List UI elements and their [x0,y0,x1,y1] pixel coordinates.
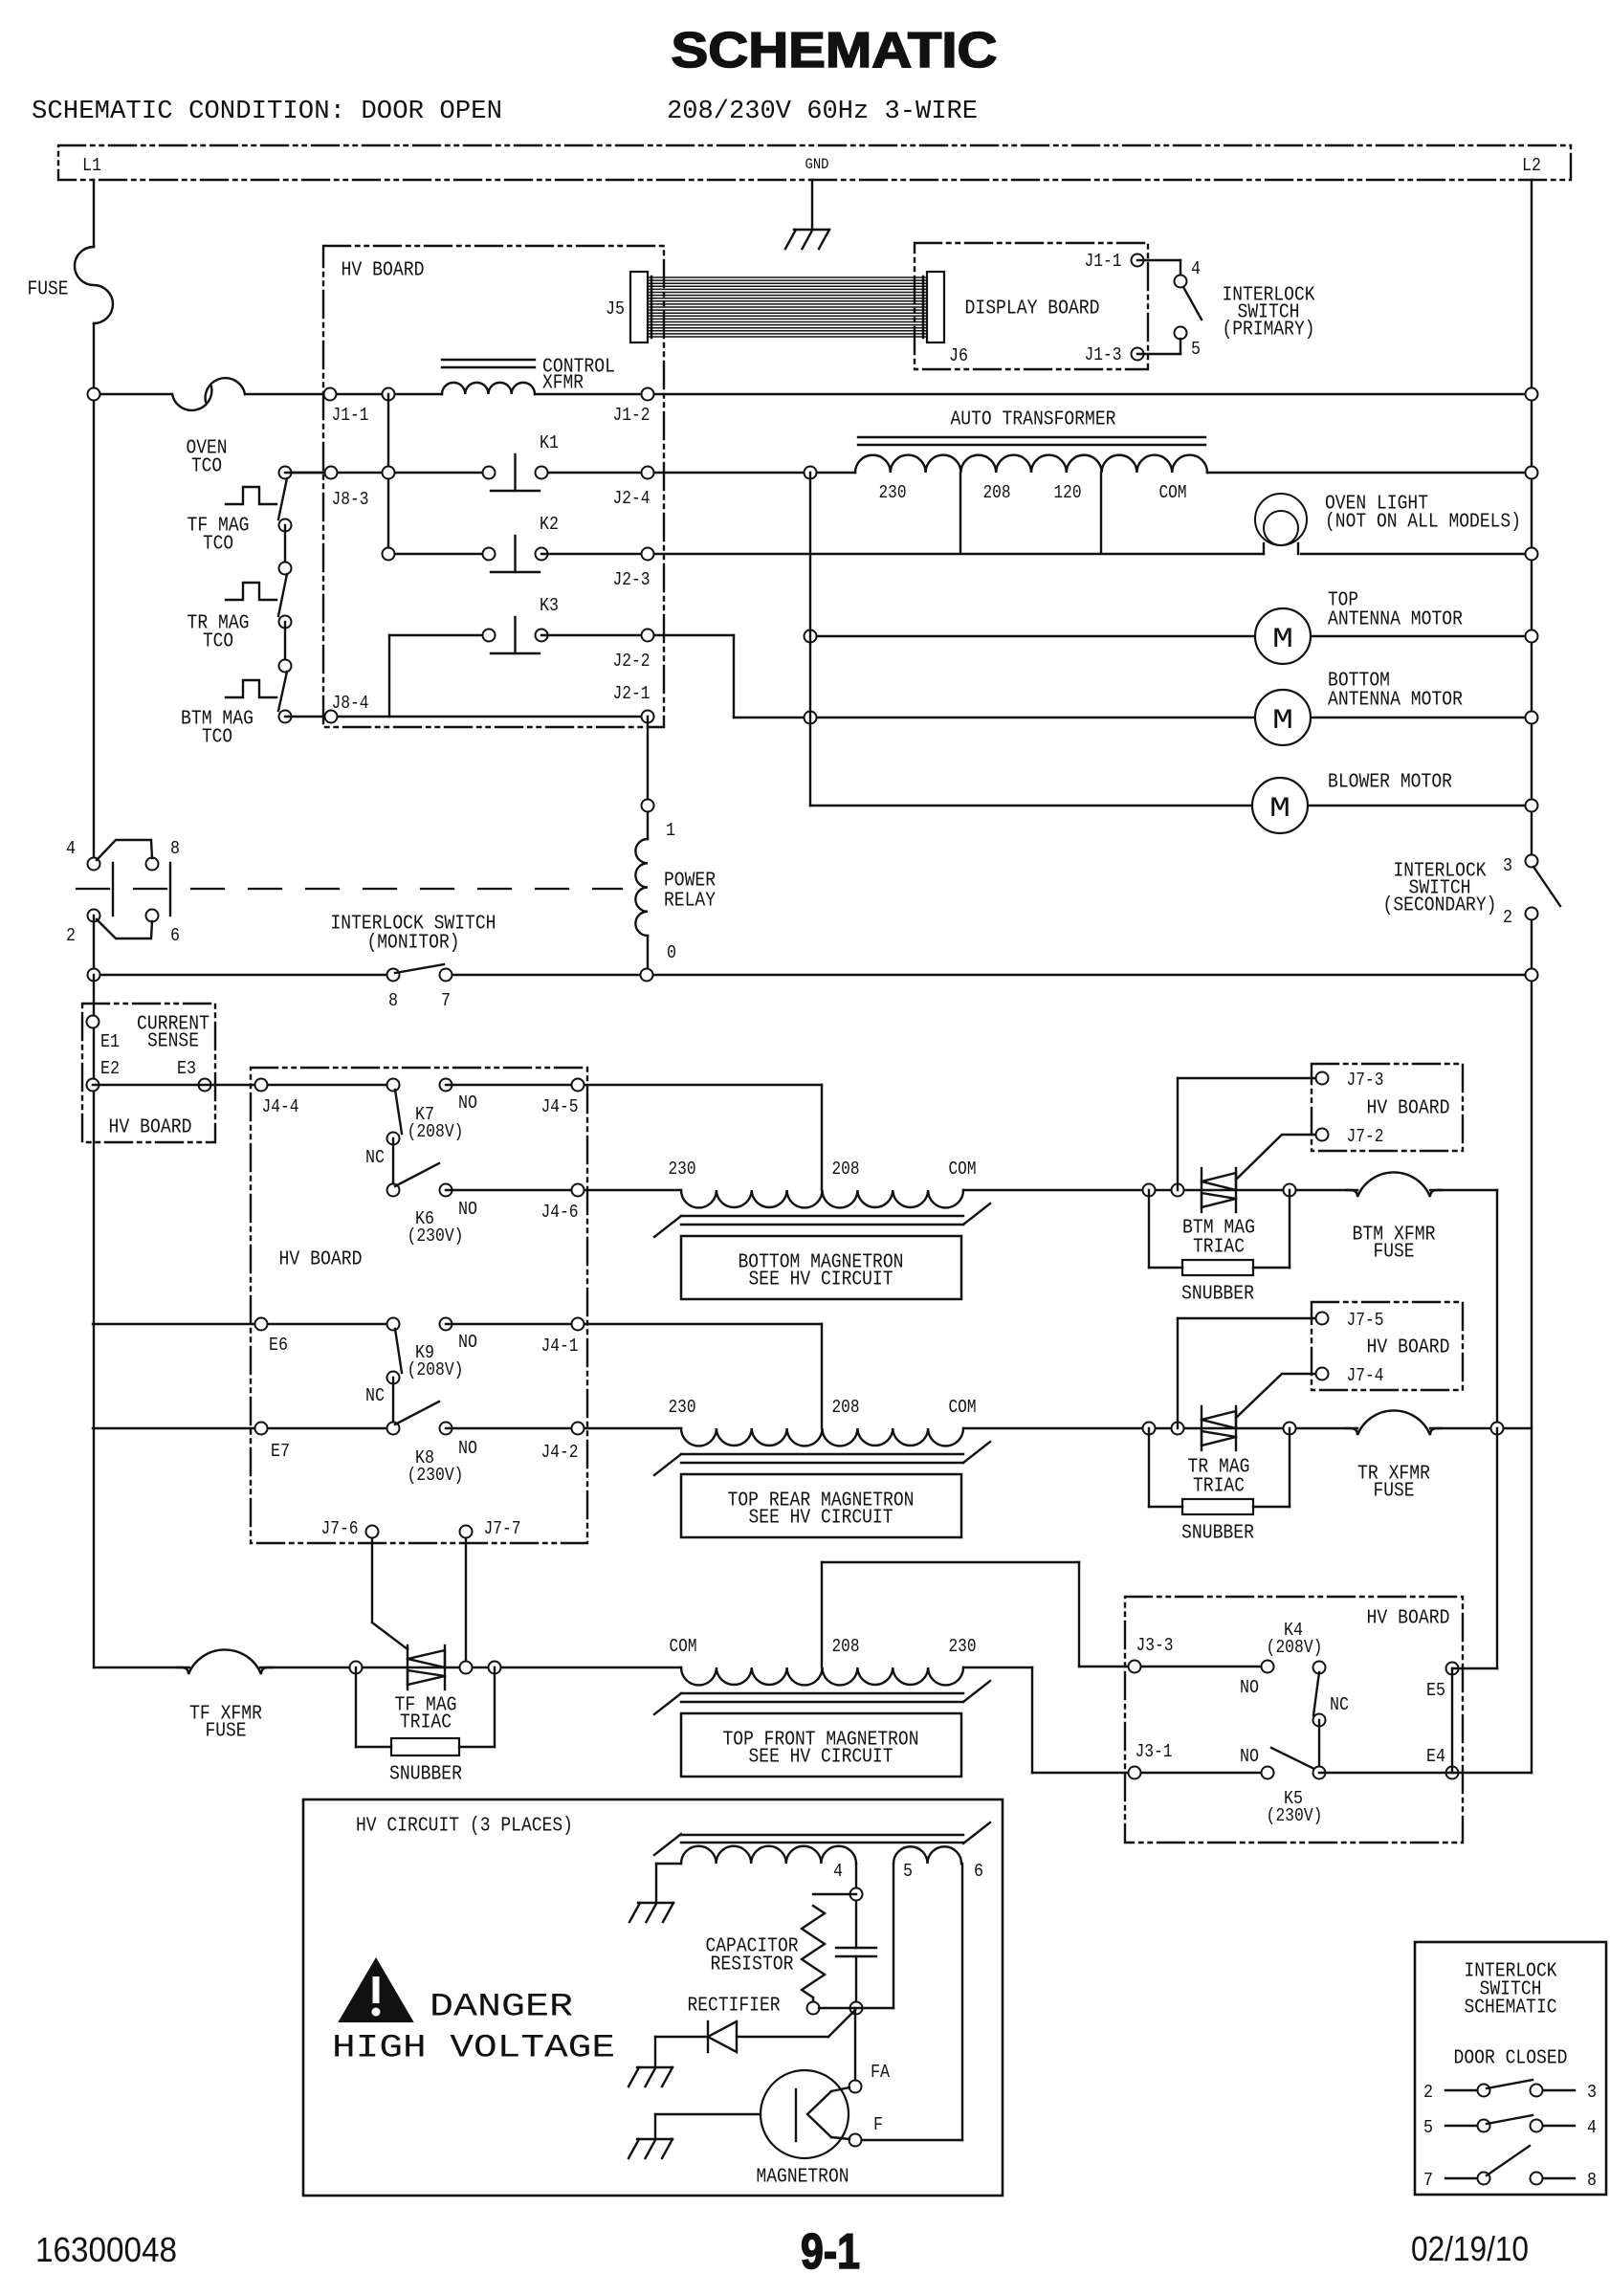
svg-text:02/19/10: 02/19/10 [1411,2229,1529,2268]
svg-text:(208V): (208V) [408,1359,464,1380]
svg-text:RECTIFIER: RECTIFIER [688,1996,781,2018]
svg-text:E5: E5 [1426,1680,1445,1701]
svg-text:208: 208 [832,1636,860,1657]
svg-text:E4: E4 [1426,1746,1445,1767]
svg-text:K3: K3 [540,595,559,616]
svg-text:TCO: TCO [203,631,233,653]
svg-text:SENSE: SENSE [147,1031,199,1053]
svg-text:J3-1: J3-1 [1136,1741,1173,1762]
svg-text:5: 5 [1423,2117,1433,2138]
svg-text:SCHEMATIC: SCHEMATIC [672,23,998,78]
svg-text:HV BOARD: HV BOARD [1367,1608,1450,1630]
svg-text:NO: NO [1240,1677,1259,1698]
svg-text:1: 1 [666,820,675,841]
svg-text:8: 8 [170,838,180,859]
svg-text:FUSE: FUSE [28,279,69,301]
svg-text:2: 2 [1503,907,1512,928]
svg-text:NC: NC [1330,1694,1349,1715]
svg-text:L1: L1 [82,155,101,176]
svg-text:DOOR CLOSED: DOOR CLOSED [1454,2048,1568,2070]
svg-text:K2: K2 [540,514,559,535]
svg-text:J2-4: J2-4 [613,488,651,509]
svg-text:SNUBBER: SNUBBER [1181,1284,1254,1306]
svg-text:5: 5 [903,1861,913,1882]
svg-text:FUSE: FUSE [1374,1242,1415,1264]
svg-text:DISPLAY BOARD: DISPLAY BOARD [965,298,1100,320]
svg-text:NO: NO [1240,1746,1259,1767]
svg-text:J8-4: J8-4 [332,693,369,714]
svg-text:ANTENNA MOTOR: ANTENNA MOTOR [1328,609,1463,631]
svg-text:2: 2 [66,925,76,946]
svg-text:230: 230 [669,1397,696,1418]
svg-text:8: 8 [388,990,398,1011]
svg-text:F: F [873,2114,883,2135]
svg-text:HV BOARD: HV BOARD [1367,1337,1450,1359]
svg-text:K1: K1 [540,432,559,453]
svg-text:J1-3: J1-3 [1085,344,1122,365]
svg-text:COM: COM [670,1636,697,1657]
svg-text:(230V): (230V) [1267,1805,1323,1826]
svg-text:E3: E3 [177,1058,196,1079]
svg-text:7: 7 [441,990,451,1011]
svg-text:HV CIRCUIT (3 PLACES): HV CIRCUIT (3 PLACES) [356,1816,573,1838]
svg-text:J7-2: J7-2 [1347,1126,1384,1147]
svg-text:16300048: 16300048 [35,2230,177,2269]
svg-text:GND: GND [805,156,829,173]
svg-text:J7-6: J7-6 [321,1518,359,1539]
svg-text:230: 230 [949,1636,977,1657]
svg-text:0: 0 [667,942,676,963]
svg-text:TCO: TCO [202,727,232,749]
svg-text:8: 8 [1587,2170,1597,2191]
svg-text:XFMR: XFMR [542,373,584,395]
svg-text:J3-3: J3-3 [1136,1635,1174,1656]
svg-text:J7-4: J7-4 [1347,1365,1384,1386]
svg-text:(208V): (208V) [408,1121,464,1142]
svg-text:J7-7: J7-7 [484,1518,521,1539]
svg-text:(SECONDARY): (SECONDARY) [1383,895,1497,917]
svg-text:J4-1: J4-1 [541,1336,579,1357]
svg-text:RESISTOR: RESISTOR [711,1954,794,1976]
svg-text:2: 2 [1423,2082,1433,2103]
svg-text:230: 230 [669,1159,696,1180]
svg-text:SCHEMATIC CONDITION: DOOR OPE: SCHEMATIC CONDITION: DOOR OPEN [32,98,502,126]
svg-text:FA: FA [871,2062,891,2083]
svg-text:E2: E2 [100,1058,120,1079]
svg-text:J4-6: J4-6 [541,1202,579,1223]
svg-text:HV BOARD: HV BOARD [279,1249,363,1271]
svg-text:E7: E7 [271,1441,290,1462]
svg-text:HV BOARD: HV BOARD [342,260,425,282]
svg-text:3: 3 [1587,2082,1597,2103]
svg-text:208: 208 [983,482,1011,503]
svg-text:E1: E1 [100,1031,120,1052]
svg-text:J1-1: J1-1 [332,405,369,426]
svg-text:SEE HV CIRCUIT: SEE HV CIRCUIT [749,1508,893,1530]
svg-text:BLOWER MOTOR: BLOWER MOTOR [1328,772,1452,794]
svg-text:NC: NC [365,1385,385,1406]
svg-text:9-1: 9-1 [801,2224,860,2280]
svg-text:FUSE: FUSE [1374,1481,1415,1503]
svg-text:SCHEMATIC: SCHEMATIC [1465,1998,1557,2020]
svg-text:SNUBBER: SNUBBER [1181,1523,1254,1545]
svg-text:J7-3: J7-3 [1347,1070,1384,1091]
svg-text:DANGER: DANGER [430,1989,573,2025]
svg-text:208: 208 [832,1159,860,1180]
svg-text:J7-5: J7-5 [1347,1310,1384,1331]
svg-text:6: 6 [974,1861,983,1882]
svg-text:COM: COM [949,1159,977,1180]
svg-text:J1-1: J1-1 [1085,251,1122,272]
svg-text:SNUBBER: SNUBBER [389,1764,462,1786]
svg-text:(MONITOR): (MONITOR) [367,933,460,955]
svg-text:ANTENNA MOTOR: ANTENNA MOTOR [1328,690,1463,712]
svg-text:230: 230 [879,482,907,503]
svg-text:208/230V 60Hz 3-WIRE: 208/230V 60Hz 3-WIRE [667,98,978,126]
svg-text:NO: NO [458,1093,477,1114]
svg-text:J2-1: J2-1 [613,683,651,704]
svg-text:4: 4 [1191,258,1201,279]
svg-text:POWER: POWER [664,871,716,893]
svg-text:5: 5 [1191,339,1201,360]
svg-text:(230V): (230V) [408,1225,464,1247]
svg-text:J4-5: J4-5 [541,1096,579,1117]
svg-text:TCO: TCO [203,534,233,556]
svg-text:208: 208 [832,1397,860,1418]
svg-text:TCO: TCO [191,456,222,478]
svg-text:COM: COM [1159,482,1187,503]
svg-text:RELAY: RELAY [664,891,716,913]
svg-text:SEE HV CIRCUIT: SEE HV CIRCUIT [749,1747,893,1769]
svg-text:J4-4: J4-4 [262,1096,299,1117]
svg-text:L2: L2 [1522,155,1541,176]
svg-text:J4-2: J4-2 [541,1442,579,1463]
svg-text:TRIAC: TRIAC [1193,1476,1245,1498]
svg-text:HIGH VOLTAGE: HIGH VOLTAGE [332,2030,615,2066]
svg-text:4: 4 [1587,2117,1597,2138]
svg-text:NC: NC [365,1147,385,1168]
svg-text:NO: NO [458,1438,477,1459]
svg-text:M: M [1272,624,1293,656]
svg-text:(PRIMARY): (PRIMARY) [1223,320,1315,342]
svg-text:6: 6 [170,925,180,946]
svg-text:120: 120 [1054,482,1082,503]
svg-text:3: 3 [1503,855,1512,876]
svg-text:J8-3: J8-3 [332,489,369,510]
svg-text:AUTO TRANSFORMER: AUTO TRANSFORMER [951,409,1116,431]
svg-text:E6: E6 [269,1335,288,1356]
svg-text:M: M [1269,793,1290,826]
svg-text:J2-3: J2-3 [613,569,651,590]
svg-text:COM: COM [949,1397,977,1418]
svg-text:4: 4 [833,1861,843,1882]
svg-text:NO: NO [458,1332,477,1353]
svg-text:J1-2: J1-2 [613,405,651,426]
svg-text:SEE HV CIRCUIT: SEE HV CIRCUIT [749,1269,893,1291]
svg-text:J6: J6 [949,345,968,366]
svg-text:HV BOARD: HV BOARD [1367,1098,1450,1120]
svg-text:TRIAC: TRIAC [1193,1237,1245,1259]
svg-text:FUSE: FUSE [206,1721,247,1743]
svg-text:4: 4 [66,838,76,859]
svg-text:HV BOARD: HV BOARD [109,1117,192,1139]
svg-text:(NOT ON ALL MODELS): (NOT ON ALL MODELS) [1325,512,1521,534]
svg-text:J2-2: J2-2 [613,651,651,672]
svg-text:M: M [1272,705,1293,738]
svg-text:(230V): (230V) [408,1465,464,1486]
svg-text:MAGNETRON: MAGNETRON [757,2167,849,2189]
svg-text:J5: J5 [606,298,625,320]
svg-text:7: 7 [1423,2170,1433,2191]
svg-text:TRIAC: TRIAC [400,1712,452,1734]
svg-text:(208V): (208V) [1267,1637,1323,1658]
svg-text:NO: NO [458,1199,477,1220]
